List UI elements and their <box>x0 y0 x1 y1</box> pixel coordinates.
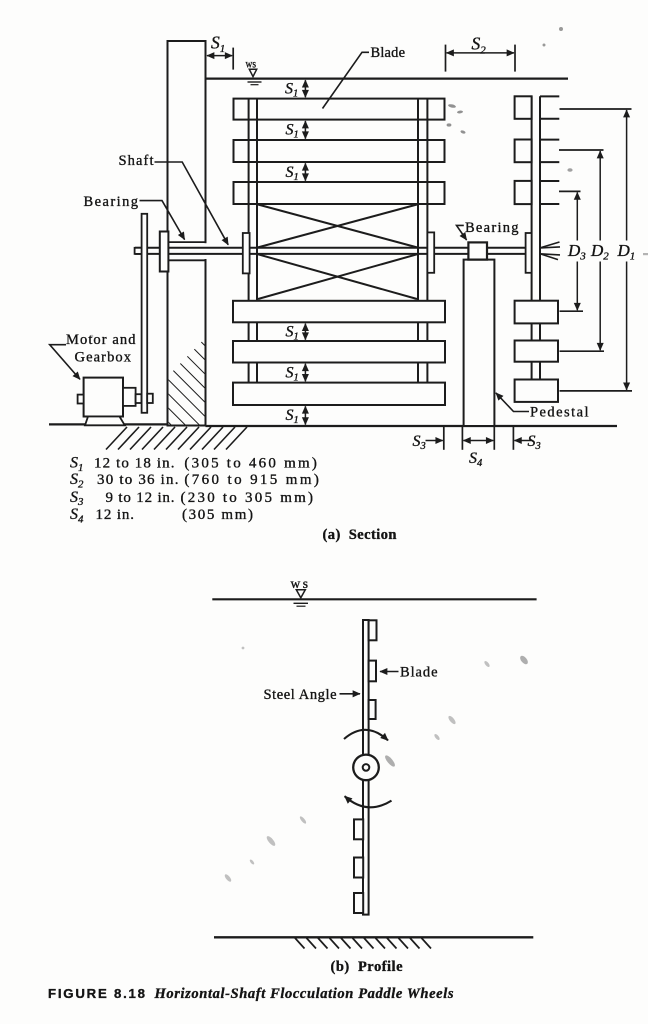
leader Steel Angle <box>340 693 361 695</box>
hub flange right arm <box>427 232 434 272</box>
water surface symbol (section) <box>248 69 262 84</box>
shaft end stub left of drive disc <box>135 248 143 254</box>
dimension D1 line <box>626 110 628 241</box>
drive disc (vertical plate) <box>142 214 148 413</box>
svg-text:Gearbox: Gearbox <box>75 349 132 365</box>
paddle wheel 1 left arm <box>248 99 250 404</box>
paddle wheel 1 right arm <box>417 99 419 404</box>
S4 arrow <box>463 440 493 442</box>
S3 right arrow <box>514 440 531 442</box>
svg-text:(b) Profile: (b) Profile <box>331 959 404 975</box>
wheel 2 hub flange <box>526 233 532 273</box>
dimension S2 right tick <box>514 45 516 72</box>
wheel 2 blade A (cut) <box>515 96 532 119</box>
profile blade 6 <box>354 893 363 913</box>
S1 vertical arrow blade6-floor <box>304 406 306 424</box>
leader Pedestal <box>496 393 529 412</box>
ground line left of wall <box>49 423 168 425</box>
leader Shaft <box>155 162 229 245</box>
svg-text:Horizontal-Shaft Flocculation: Horizontal-Shaft Flocculation Paddle Whe… <box>154 986 454 1002</box>
ground line (profile) <box>214 936 533 938</box>
wheel 2 blade E <box>515 341 558 362</box>
dimension S1 wall-to-blade arrow <box>207 55 232 57</box>
shaft (horizontal, double line) <box>135 247 526 249</box>
profile blade 2 <box>369 661 376 682</box>
svg-text:D2: D2 <box>590 241 609 263</box>
svg-text:D3: D3 <box>567 241 586 263</box>
svg-text:30 to 36 in.: 30 to 36 in. <box>97 472 179 488</box>
svg-text:12 to 18 in.: 12 to 18 in. <box>94 455 175 471</box>
profile blade 5 <box>354 858 363 878</box>
wheel 2 blade A edge stubs <box>540 95 559 97</box>
svg-text:S1: S1 <box>286 364 299 383</box>
S1 vertical arrow blade2-blade3 <box>304 163 306 180</box>
svg-text:12 in.: 12 in. <box>96 507 135 523</box>
profile blade 4 <box>354 819 363 839</box>
ground hatch strokes below left ground <box>106 427 247 450</box>
steel angle arm (profile) <box>363 620 369 915</box>
basin floor line (section) <box>206 425 618 427</box>
motor shaft piece <box>136 394 142 403</box>
dimension D3 line <box>576 192 578 240</box>
svg-text:S4: S4 <box>70 506 84 525</box>
dimension D2 bottom tick <box>560 350 605 352</box>
svg-text:Blade: Blade <box>371 45 406 61</box>
wheel 2 brace stubs at shaft <box>540 242 560 260</box>
center bearing block <box>468 242 487 259</box>
wall shaft notch <box>166 243 207 259</box>
svg-text:S1: S1 <box>285 81 298 100</box>
hub flange left arm <box>243 233 250 273</box>
wheel 2 blade C (cut) <box>515 181 532 204</box>
svg-text:FIGURE 8.18: FIGURE 8.18 <box>48 986 145 1001</box>
paddle wheel 1 blade row 2 <box>234 140 445 162</box>
leader Bearing left <box>140 201 185 240</box>
water surface line (section) <box>206 77 569 79</box>
svg-text:S4: S4 <box>469 450 483 469</box>
S1 vertical arrow blade4-blade5 <box>304 324 306 340</box>
motor body <box>84 378 123 417</box>
svg-text:S2: S2 <box>472 33 487 56</box>
wheel 2 blade C edge stubs <box>540 180 559 182</box>
svg-text:(a) Section: (a) Section <box>323 527 397 543</box>
svg-text:Steel Angle: Steel Angle <box>264 687 337 703</box>
profile blade top <box>369 620 377 640</box>
leader Blade (profile) <box>380 671 399 673</box>
svg-text:D1: D1 <box>617 241 636 263</box>
paddle wheel 1 blade row 6 <box>233 383 445 405</box>
svg-text:(305 mm): (305 mm) <box>182 507 253 523</box>
profile blade 3 <box>369 700 376 719</box>
S3 left arrow <box>426 440 443 442</box>
water surface line (profile) <box>212 598 536 600</box>
motor coupling <box>123 388 136 406</box>
svg-text:(230 to 305 mm): (230 to 305 mm) <box>181 490 314 506</box>
svg-text:Bearing: Bearing <box>465 220 519 236</box>
svg-text:Shaft: Shaft <box>119 153 154 169</box>
motor left nub <box>78 395 84 404</box>
cross bracing upper X <box>258 205 417 248</box>
dimension D1 top tick <box>560 108 632 110</box>
paddle wheel 1 blade row 4 (below shaft) <box>233 301 445 323</box>
svg-text:Pedestal: Pedestal <box>530 405 589 421</box>
svg-text:Blade: Blade <box>400 665 438 681</box>
paddle wheel 1 blade row 5 <box>233 341 445 363</box>
paddle wheel 2 arm <box>531 96 533 402</box>
leader Motor and Gearbox <box>50 345 80 380</box>
motor base <box>85 417 125 426</box>
motor shaft stub right of disc <box>147 394 153 403</box>
scan smudges <box>91 27 648 883</box>
svg-text:9 to 12 in.: 9 to 12 in. <box>106 490 175 506</box>
dimension S2 arrow <box>447 52 515 54</box>
dimension D2 top tick <box>559 149 604 151</box>
wheel 2 blade D (below shaft) <box>515 301 558 324</box>
wall (left basin wall) <box>168 41 206 426</box>
svg-text:S3: S3 <box>528 433 541 452</box>
leader Blade <box>323 52 370 108</box>
svg-text:S3: S3 <box>413 433 426 452</box>
svg-text:S1: S1 <box>286 407 299 426</box>
svg-text:S1: S1 <box>286 323 299 342</box>
ground hatch strokes (profile) <box>295 938 431 949</box>
S3 S4 ticks below floor <box>444 427 514 450</box>
svg-text:Bearing: Bearing <box>84 194 139 210</box>
pedestal <box>464 260 495 426</box>
hub circle (shaft end) <box>353 755 379 781</box>
svg-text:(760 to 915 mm): (760 to 915 mm) <box>184 472 319 488</box>
svg-text:S1: S1 <box>286 122 299 141</box>
wheel 2 blade B edge stubs <box>540 139 559 141</box>
dimension S2 left tick <box>445 45 447 72</box>
dimension D3 top tick <box>559 190 581 192</box>
rotation arc upper <box>344 730 388 741</box>
wheel 2 blade F <box>515 380 558 402</box>
S1 vertical arrow blade1-blade2 <box>304 121 306 139</box>
dimension S1 wall-to-blade tick <box>232 48 234 70</box>
hub center dot <box>363 764 370 771</box>
svg-text:S1: S1 <box>211 32 225 55</box>
wall hatch (concrete fill) <box>169 338 206 425</box>
bearing block on wall (left) <box>160 232 169 272</box>
svg-text:S2: S2 <box>70 471 84 490</box>
dimension D2 line <box>599 151 601 241</box>
paddle wheel 1 blade row 1 (above shaft) <box>234 99 445 120</box>
water surface symbol (profile) <box>296 590 305 598</box>
dimension D3 bottom tick <box>560 310 584 312</box>
wheel 2 blade B (cut) <box>515 140 532 163</box>
svg-text:S1: S1 <box>286 164 299 183</box>
S1 vertical arrow water-blade1 <box>304 80 306 97</box>
svg-text:Motor and: Motor and <box>66 332 136 348</box>
svg-text:ws: ws <box>291 576 309 591</box>
dimension D1 bottom tick <box>560 390 633 392</box>
cross bracing lower X <box>258 254 417 299</box>
paddle wheel 1 blade row 3 <box>234 182 445 204</box>
svg-text:ws: ws <box>246 58 257 70</box>
svg-text:(305 to 460 mm): (305 to 460 mm) <box>184 455 317 471</box>
S1 vertical arrow blade5-blade6 <box>304 364 306 382</box>
rotation arc lower <box>345 796 392 807</box>
leader Bearing center <box>457 225 467 240</box>
